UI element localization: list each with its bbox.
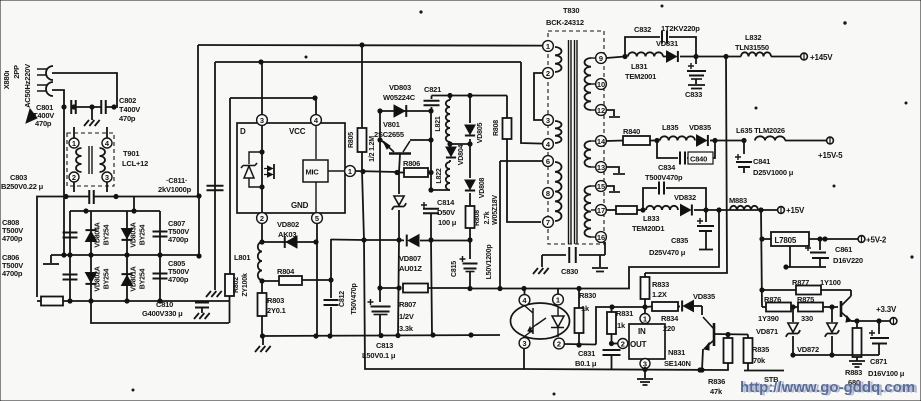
T830 pin 6 <box>543 156 554 167</box>
diode VD802 AK03 <box>262 236 318 248</box>
wire plug bottom to C801 left <box>52 90 64 107</box>
label R833 1.2X <box>652 280 669 299</box>
wire opto pin2 net <box>564 305 645 345</box>
diode VD801A <box>121 255 132 301</box>
label C801 <box>33 103 54 128</box>
wire N831 pin3 ground <box>637 367 653 385</box>
wire pin15 stub ground <box>606 186 620 192</box>
wire C821 top feed <box>432 93 508 97</box>
T830 pin 13 <box>596 162 607 173</box>
T901 pin 1 <box>69 138 79 148</box>
label R877 1Y100 <box>792 278 841 287</box>
T830 pin 3 <box>543 115 554 126</box>
wire opto pin1 up <box>557 289 559 295</box>
IC internal MIC box <box>303 160 328 182</box>
wire pin16 down <box>604 242 606 255</box>
cross wire VD804-VD805 <box>450 142 472 146</box>
wire T901 pin2 down <box>73 182 75 192</box>
wire rail to mid bus <box>197 196 201 258</box>
wire HV rail top left drop <box>197 45 201 198</box>
optocoupler N830 body <box>511 303 570 339</box>
wire L7805 gnd <box>789 246 791 267</box>
inductor L833 <box>646 206 678 210</box>
IC internal column <box>260 123 264 213</box>
label C811 <box>158 176 192 194</box>
wire to +145V terminal <box>771 56 800 58</box>
T830 pin 14 <box>596 136 607 147</box>
resistor R803 <box>258 281 267 338</box>
wire STB <box>744 370 784 372</box>
resistor R833 <box>641 273 650 313</box>
T830 pin 10 <box>596 79 607 90</box>
resistor R840 <box>623 136 659 145</box>
wire R831 to N831 OUT <box>612 343 618 345</box>
N831 pin 2 <box>618 339 628 349</box>
lower loop wire <box>364 240 524 369</box>
T830 primary winding 1-2 <box>555 47 562 72</box>
opto pin 3 <box>519 338 530 349</box>
T830 secondary winding 9-12 <box>585 58 596 110</box>
label C834 T500V470p <box>645 163 683 182</box>
label T901 LCL+12 <box>122 149 148 168</box>
capacitor C805 <box>153 255 168 301</box>
N831 pin 3 <box>640 359 650 369</box>
capacitor C801 <box>62 100 76 114</box>
capacitor C803 <box>64 190 118 204</box>
label C821 <box>424 85 441 94</box>
secondary ground bus <box>524 368 726 372</box>
T830 pin 12 <box>596 105 607 116</box>
label R830 1k <box>579 291 596 313</box>
wire feedback line <box>470 286 630 290</box>
diode VD807 <box>331 239 364 242</box>
T901 pin 4 <box>102 138 112 148</box>
terminal +3.3V <box>876 305 897 324</box>
wire pin2 down <box>260 223 264 244</box>
diode VD803A <box>121 211 132 255</box>
label L821 <box>435 116 442 131</box>
inductor L835 <box>660 136 695 140</box>
label C832 1T2KV220p <box>634 24 700 34</box>
label R808 2.7k W05Z18V <box>474 195 499 226</box>
label C806 <box>2 253 23 278</box>
wire C803 right segment <box>94 196 199 198</box>
IC internal columns <box>316 123 344 213</box>
label L801 <box>234 253 250 262</box>
T901 right winding <box>100 148 106 172</box>
T830 secondary winding 15-16 <box>585 186 596 237</box>
wire C812 column top <box>330 239 332 280</box>
capacitor C807 <box>153 211 168 255</box>
label VD835 <box>693 292 715 301</box>
wire HV rail 2 <box>215 60 543 144</box>
label R883 680 <box>845 368 862 387</box>
resistor R808 feedback <box>503 96 542 223</box>
wire C861 return <box>786 266 826 268</box>
wire pin14 out <box>606 140 623 143</box>
label C810 <box>142 300 183 318</box>
label R804 <box>277 267 295 276</box>
terminal +15V-5 <box>818 137 843 160</box>
IC labels D VCC GND <box>240 127 309 210</box>
wire emitter node <box>855 319 890 323</box>
label VD805 <box>477 122 484 143</box>
IC N831 box <box>629 324 665 359</box>
regulator L7805 box <box>762 232 809 246</box>
wire R802 column <box>229 98 231 274</box>
T830 pin 7 <box>543 217 554 228</box>
capacitor C830 <box>542 247 605 263</box>
resistor R836 <box>724 335 733 371</box>
label VD802 AK03 <box>277 220 299 239</box>
resistor R805 <box>358 45 367 171</box>
label VD808 <box>479 177 486 198</box>
wire C814 column to bus <box>431 240 432 335</box>
ground R883 <box>849 361 865 367</box>
label R806 <box>403 159 420 168</box>
label VD804 <box>458 144 465 165</box>
zener VD806 base <box>392 173 406 242</box>
IC pin 3 <box>257 115 268 126</box>
wire bottom bus <box>63 299 229 303</box>
resistor R877 <box>796 286 851 295</box>
ground C811 <box>206 291 222 297</box>
wire opto pin4 up <box>524 289 526 295</box>
T830 pin 2 <box>543 68 554 79</box>
wire HV rail top <box>198 43 543 47</box>
label C803 <box>1 173 44 191</box>
label X880 2PP AC50Hz220V <box>2 64 32 108</box>
label VD804A BY254 <box>95 222 111 247</box>
capacitor C841 <box>735 141 752 174</box>
wire C801-C802 node <box>76 105 101 109</box>
label R835 70k <box>752 345 769 365</box>
T830 primary winding 6-7 <box>555 162 562 221</box>
wire T901 pin1 up <box>73 127 75 138</box>
inductor L832 <box>741 52 771 56</box>
label C871 D16V100u <box>868 357 905 378</box>
diode VD808 <box>465 144 475 206</box>
wire pin6 left <box>500 161 543 164</box>
IC pin 4 <box>311 115 322 126</box>
T830 secondary winding 14-13 <box>585 141 596 167</box>
resistor R806 <box>399 168 433 177</box>
capacitor C813 <box>368 288 391 336</box>
bridge top bus <box>70 209 160 213</box>
diode VD804 <box>446 142 456 162</box>
wire pin13 stub ground <box>606 167 625 174</box>
T830 pin 16 <box>596 232 607 243</box>
label R802 ZY100k <box>233 273 249 297</box>
wire rail2 corner down C811 <box>214 62 216 290</box>
jumper pins 2-3 <box>534 73 543 120</box>
label R875 330 <box>797 295 814 323</box>
inductor L801 <box>258 242 264 283</box>
IC internal photo arrows <box>264 164 274 179</box>
feedback tap +15V <box>629 210 719 289</box>
wire pin5 down <box>314 223 318 338</box>
primary ground bus <box>263 333 500 338</box>
resistor R804 <box>262 276 333 285</box>
N831 pin 1 <box>640 314 650 324</box>
capacitor C815 <box>460 240 478 288</box>
wire R805 to VD807 line <box>362 171 366 242</box>
zener VD871 <box>786 307 800 357</box>
resistor R802 <box>225 274 234 323</box>
terminal +15V <box>778 206 805 215</box>
label M883 <box>729 196 747 205</box>
wire zener return <box>793 354 879 356</box>
resistor R835 <box>744 335 753 371</box>
diode VD803 snubber <box>378 105 433 117</box>
label C813 L50V0.1u <box>362 341 396 360</box>
label C831 B0.1u <box>575 349 597 368</box>
ground at C801/C802 node <box>84 107 100 126</box>
capacitor C808 <box>63 211 78 255</box>
capacitor C821 <box>424 96 440 112</box>
transistor V832 <box>700 306 714 372</box>
capacitor C814 <box>421 202 439 242</box>
wire AC1 drop to mid bus <box>63 107 65 255</box>
resistor R831 <box>607 307 616 346</box>
label STB <box>764 375 779 384</box>
label C833 <box>685 90 702 99</box>
IC internal zener <box>241 152 262 187</box>
series element pin17 <box>616 206 645 214</box>
label VD835 <box>689 123 711 132</box>
diode VD835 zener <box>678 300 702 311</box>
wire C803 left segment <box>37 197 89 298</box>
diode VD835 rect <box>697 135 718 146</box>
opto pin 4 <box>519 295 530 306</box>
capacitor C812 <box>324 280 339 338</box>
capacitor C811 <box>207 186 224 191</box>
label L832 TLN31550 <box>735 33 769 52</box>
label C814 D50V 100u <box>437 198 457 227</box>
label C830 <box>561 267 578 276</box>
T901 left winding <box>76 148 82 172</box>
diode VD802A <box>85 255 96 301</box>
wire L7805 input <box>760 210 764 307</box>
label VD803 W05224C <box>383 83 416 102</box>
ground C833 <box>688 85 705 89</box>
label R808 <box>493 120 500 136</box>
label R831 1k <box>616 309 633 330</box>
bridge mid bus <box>51 253 200 257</box>
wire base R835/R836 <box>714 332 748 336</box>
transistor V883 <box>841 290 857 322</box>
wire C814 column <box>429 140 433 192</box>
label N831 SE140N <box>664 348 691 368</box>
T830 pin 17 <box>596 205 607 216</box>
capacitor C861 <box>784 239 829 269</box>
diode VD805 <box>465 96 475 145</box>
capacitor C810 <box>195 301 209 313</box>
IC pin 2 <box>257 213 268 224</box>
label C808 <box>2 218 23 243</box>
T830 core <box>569 40 578 244</box>
resistor R808 2.7k <box>466 206 475 242</box>
wire pin6 drop <box>499 164 501 289</box>
label V801 2SC2655 <box>374 120 404 139</box>
terminal +5V-2 <box>858 236 887 245</box>
label C835 D25V470u <box>649 236 688 257</box>
label R876 1Y390 <box>758 295 781 323</box>
resistor R834 <box>645 302 678 311</box>
transistor V801 <box>378 111 431 172</box>
label C807 <box>168 219 189 244</box>
zener VD872 <box>825 307 839 357</box>
transformer T901 dashed box <box>67 133 114 186</box>
label VD831 <box>656 39 678 48</box>
wire T901 pin3 down <box>106 182 108 192</box>
label C805 <box>168 259 189 284</box>
ground C830 left <box>533 255 549 274</box>
capacitor C832 snubber <box>625 31 696 57</box>
mains polarity arrow <box>26 109 37 123</box>
opto pin 1 <box>553 294 564 305</box>
capacitor C871 <box>869 321 889 355</box>
label VD807 AU01Z <box>399 254 422 273</box>
wire zener column to bus <box>398 240 399 336</box>
label C802 <box>119 96 140 123</box>
label R807 1/2V 3.3k <box>399 300 416 333</box>
snubber C840 <box>657 141 715 165</box>
resistor R875 <box>791 303 838 312</box>
T830 primary winding 3-4 <box>555 121 562 143</box>
label VD802A BY254 <box>95 266 111 291</box>
resistor R876 <box>762 303 795 312</box>
label T830 BCK-24312 <box>546 6 584 27</box>
label L833 TEM20D1 <box>632 214 664 233</box>
inductor L821 <box>446 96 450 143</box>
wire collector to C814 column <box>429 111 433 142</box>
label R805 <box>348 132 376 162</box>
capacitor C802 <box>101 100 116 114</box>
T830 pin 15 <box>596 181 607 192</box>
capacitor C833 <box>687 57 706 85</box>
capacitor C806 <box>63 255 78 301</box>
capacitor C835 <box>697 210 714 250</box>
wire AC2 drop to top bus <box>133 196 135 211</box>
diode VD832 <box>681 204 709 215</box>
label R836 47k <box>708 377 725 396</box>
resistor R830 <box>575 289 584 348</box>
N831 labels <box>630 327 647 349</box>
wire pin12 stub ground <box>606 110 620 117</box>
label R803 2Y0.1 <box>267 296 286 315</box>
wire pin4 to VCC <box>315 98 317 115</box>
wire T901 pin4 up <box>106 127 108 138</box>
IC pin 1 <box>345 166 356 177</box>
label VD871 <box>756 327 778 336</box>
ground C810 <box>194 313 210 319</box>
wire +15V rail <box>706 208 777 212</box>
T901 pin 3 <box>102 172 112 182</box>
label C861 D16V220 <box>833 245 863 265</box>
watermark url <box>740 379 915 396</box>
ground at bus left end <box>255 336 271 352</box>
inductor L635 <box>755 136 785 140</box>
wire to +15V-5 terminal <box>785 140 826 142</box>
T830 dashed outline <box>548 31 604 244</box>
T830 pin 8 <box>543 188 554 199</box>
label L822 <box>436 168 443 183</box>
label R834 220 <box>661 314 679 333</box>
ground C830 right <box>592 255 608 272</box>
feedback tap +145V <box>645 57 727 274</box>
wire pin1 to base node <box>355 169 399 174</box>
T830 pin 4 <box>543 139 554 150</box>
wire to L635 <box>715 138 746 142</box>
resistor R807 <box>380 284 472 293</box>
T901 pin 2 <box>69 172 79 182</box>
wire pin9 out <box>606 54 627 58</box>
capacitor C831 <box>603 350 621 369</box>
bottom return rail <box>91 301 229 323</box>
inductor M883 <box>730 206 758 210</box>
IC pin 5 <box>312 213 323 224</box>
label VD872 <box>797 345 819 354</box>
label R840 <box>623 127 640 136</box>
label VD801A BY254 <box>131 266 147 291</box>
label L635 TLM2026 <box>736 126 785 135</box>
snubber C834 <box>643 182 706 211</box>
label L835 <box>662 123 678 132</box>
connector X880 mains plug <box>37 66 53 96</box>
inductor L831 <box>628 52 663 56</box>
diode VD831 <box>663 51 741 62</box>
IC U801 box <box>237 123 345 213</box>
label C815 L50V1200p <box>451 245 493 280</box>
wire pin17 out <box>606 209 616 211</box>
label VD832 <box>674 193 696 202</box>
label L831 TEM2001 <box>625 62 656 81</box>
label C841 D25V1000u <box>753 157 794 177</box>
T901 core <box>89 146 92 174</box>
label C840 boxed <box>688 152 713 164</box>
wire L7805 out <box>809 237 858 241</box>
wire V801 emitter column <box>378 140 382 290</box>
terminal +145V <box>801 53 834 62</box>
wire plug top to C802 right <box>52 73 117 107</box>
wire R877 feed <box>762 289 796 291</box>
resistor R801 fusible <box>37 297 63 306</box>
label VD803A BY254 <box>131 222 147 247</box>
mid bus left stub <box>43 255 59 264</box>
wire pin3 to rail2 <box>261 62 263 115</box>
optocoupler internals <box>525 306 564 337</box>
label C812 T50V470p <box>339 283 358 314</box>
opto pin 2 <box>554 338 565 349</box>
inductor L822 <box>431 162 450 190</box>
T830 pin 1 <box>543 41 554 52</box>
wire VCC branch <box>230 96 317 100</box>
diode VD804A <box>85 211 96 255</box>
T830 pin 9 <box>596 53 607 64</box>
wire VD807 line <box>364 235 470 247</box>
resistor R883 <box>853 321 862 361</box>
